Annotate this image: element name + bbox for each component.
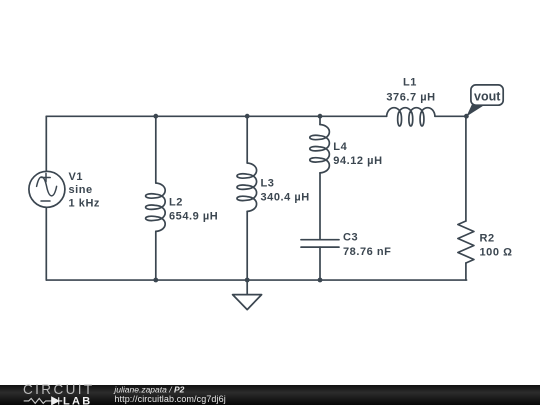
wire L2 branch upper [155, 116, 157, 183]
svg-text:1 kHz: 1 kHz [69, 198, 101, 210]
inductor L2 [146, 183, 166, 231]
wire top right from L1 to vout node [435, 115, 466, 117]
node vout flag [466, 85, 503, 117]
junction node at L4 top [318, 114, 323, 119]
svg-text:juliane.zapata / P2: juliane.zapata / P2 [113, 385, 184, 395]
svg-text:100 Ω: 100 Ω [480, 247, 513, 259]
svg-text:94.12 µH: 94.12 µH [333, 155, 382, 167]
capacitor C3 [301, 240, 339, 247]
wire left vertical upper [45, 116, 47, 171]
svg-text:78.76 nF: 78.76 nF [343, 246, 391, 258]
wire ground stem [246, 280, 248, 295]
node vout junction dot [464, 114, 469, 119]
junction node at L2 bottom [153, 278, 158, 283]
wire left vertical lower [45, 207, 47, 280]
ground [233, 295, 262, 310]
svg-text:sine: sine [69, 184, 93, 196]
svg-text:L2: L2 [169, 197, 183, 209]
wire L4 to C3 [319, 173, 321, 240]
logo resistor zigzag [24, 398, 51, 403]
junction node at L4 bottom [318, 278, 323, 283]
svg-text:376.7 µH: 376.7 µH [386, 91, 435, 103]
wire L2 branch lower [155, 231, 157, 280]
wire L3 branch upper [246, 116, 248, 163]
junction node at L3 top [245, 114, 250, 119]
svg-text:L3: L3 [261, 178, 275, 190]
wire L4 branch upper [319, 116, 321, 124]
svg-text:R2: R2 [480, 233, 495, 245]
inductor L4 [310, 125, 330, 173]
inductor L1 [387, 108, 435, 126]
resistor R2 [458, 221, 474, 263]
wire bottom horizontal [46, 279, 466, 281]
svg-text:L4: L4 [333, 141, 347, 153]
svg-text:654.9 µH: 654.9 µH [169, 211, 218, 223]
svg-text:LAB: LAB [63, 395, 93, 405]
svg-text:vout: vout [474, 90, 501, 104]
wire C3 to bottom [319, 247, 321, 280]
voltage source V1 [29, 171, 65, 207]
wire L3 branch lower [246, 211, 248, 280]
junction node at L3 bottom / ground [245, 278, 250, 283]
svg-text:V1: V1 [69, 171, 84, 183]
junction node at L2 top [153, 114, 158, 119]
svg-text:340.4 µH: 340.4 µH [261, 192, 310, 204]
svg-text:http://circuitlab.com/cg7dj6j: http://circuitlab.com/cg7dj6j [114, 394, 225, 404]
wire vout to R2 [465, 116, 467, 221]
svg-text:L1: L1 [403, 76, 417, 88]
inductor L3 [237, 163, 257, 211]
logo diode [51, 397, 63, 404]
wire top left horizontal [46, 115, 386, 117]
wire R2 to bottom [465, 263, 467, 280]
footer bar [0, 385, 540, 405]
svg-text:C3: C3 [343, 232, 358, 244]
